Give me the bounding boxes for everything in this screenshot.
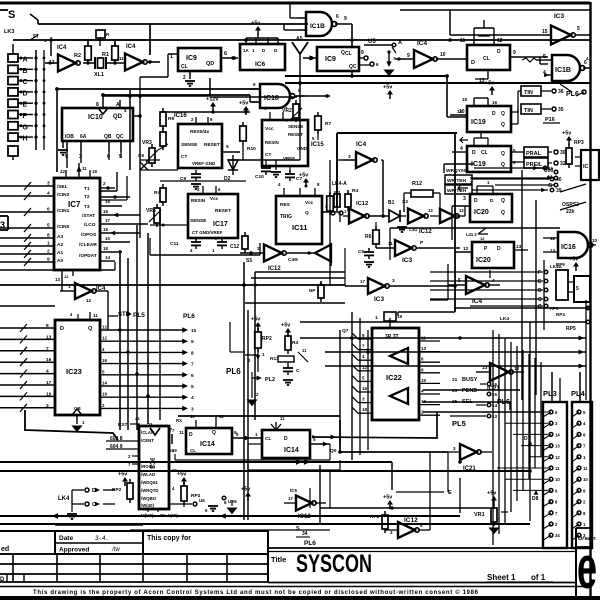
svg-text:A: A (23, 57, 28, 64)
wire IC10 right out (133, 114, 142, 118)
svg-text:IC7: IC7 (68, 200, 81, 209)
inverter IC21 lower (448, 444, 492, 472)
wire bus right y338 (300, 335, 586, 340)
wires bottom right loops (310, 452, 448, 530)
svg-text:IC4: IC4 (126, 44, 136, 50)
wire IC23 pin to IC8 curve (25, 410, 118, 440)
svg-text:4: 4 (47, 191, 50, 197)
svg-text:12: 12 (102, 325, 108, 330)
resistor R9 (160, 108, 174, 130)
IC23 top pin (70, 312, 98, 320)
svg-text:TIN: TIN (524, 90, 533, 96)
wire loop under IC20 (430, 264, 490, 300)
svg-text:S: S (8, 9, 15, 21)
svg-text:/WQBO: /WQBO (141, 496, 157, 501)
svg-text:R12: R12 (412, 181, 422, 187)
IC6 second flip-flop (460, 38, 510, 70)
svg-text:Rn: Rn (154, 190, 160, 196)
svg-text:6: 6 (47, 207, 50, 213)
IC8 tall box (139, 426, 169, 509)
svg-text:RP2: RP2 (262, 336, 272, 342)
wire vertical x455 long (398, 133, 455, 316)
svg-text:12: 12 (102, 336, 108, 341)
svg-text:S3: S3 (402, 199, 408, 205)
svg-text:15: 15 (542, 29, 548, 35)
svg-text:R9: R9 (168, 116, 174, 122)
svg-text:GND: GND (297, 146, 308, 151)
svg-text:IC23: IC23 (66, 367, 82, 376)
svg-text:IC12: IC12 (356, 201, 368, 207)
svg-text:CT: CT (265, 152, 271, 158)
drawn box (576, 528, 596, 596)
svg-text:16: 16 (102, 358, 108, 363)
IC20 first left wire (452, 206, 470, 240)
label IC16 (174, 113, 187, 119)
label Title (271, 555, 286, 564)
svg-text:/WDQ04: /WDQ04 (141, 480, 158, 485)
svg-text:XL1: XL1 (94, 72, 104, 78)
resistor Rh (158, 128, 168, 150)
pump symbol A5 (292, 36, 308, 62)
wire cluster rail (230, 322, 245, 352)
svg-text:21: 21 (452, 377, 458, 383)
svg-text:LK4-A: LK4-A (332, 181, 347, 187)
svg-text:10: 10 (583, 477, 588, 482)
svg-text:D: D (284, 436, 288, 442)
NAND IC16 right (543, 232, 598, 258)
svg-text:A5: A5 (296, 36, 303, 42)
svg-text:+5v: +5v (487, 491, 497, 497)
wire bus risers bottom (352, 312, 530, 521)
svg-text:22k: 22k (566, 209, 575, 215)
border right (589, 2, 591, 596)
svg-text:C: C (538, 304, 542, 310)
svg-text:R6: R6 (365, 234, 372, 240)
svg-text:RESET: RESET (204, 142, 220, 148)
svg-text:5: 5 (191, 384, 194, 390)
inverter IC12 midleft (240, 245, 286, 273)
svg-text:RP9: RP9 (556, 262, 565, 267)
svg-text:CL: CL (345, 51, 352, 57)
title block left cut box (0, 546, 55, 554)
svg-text:C5: C5 (358, 249, 364, 255)
connector LK3 header label (4, 29, 53, 43)
inverter IC21 right (476, 363, 524, 392)
svg-text:Q: Q (501, 111, 505, 117)
IC7 top pins (60, 163, 98, 178)
svg-text:PL4: PL4 (571, 389, 586, 398)
svg-text:Q: Q (501, 122, 505, 128)
svg-text:IC5: IC5 (290, 488, 298, 493)
IC15 box right edge (575, 150, 599, 180)
svg-text:Q: Q (501, 162, 505, 168)
svg-text:C: C (23, 79, 28, 86)
svg-text:19: 19 (397, 314, 403, 319)
svg-text:C6: C6 (138, 153, 144, 159)
svg-text:E: E (23, 102, 28, 109)
svg-text:IC4: IC4 (57, 45, 67, 51)
wire bus y40 long (13, 38, 590, 42)
wire osc top rail (51, 40, 146, 56)
IC19 second top pins (460, 132, 488, 146)
svg-text:RES: RES (280, 202, 291, 208)
inverter IC3 lower (345, 278, 455, 303)
svg-text:4: 4 (460, 146, 463, 152)
svg-text:R2: R2 (74, 53, 81, 59)
varistor VR4 (146, 204, 161, 227)
svg-text:A2: A2 (57, 242, 63, 248)
svg-text:VREF GND: VREF GND (192, 161, 216, 166)
svg-text:RESET: RESET (288, 132, 303, 137)
PL3 connector body (543, 402, 567, 548)
wire bus right y352 (325, 349, 586, 354)
svg-text:IC20: IC20 (476, 257, 491, 264)
svg-text:15: 15 (421, 378, 427, 383)
boxed labels WRPROT (444, 164, 474, 194)
junction dots buses (55, 74, 532, 473)
IC22 right wires (419, 336, 440, 416)
svg-text:F: F (538, 270, 541, 276)
IC23 right wires to PL6 arrows (100, 325, 197, 413)
cap C10 (255, 160, 271, 180)
svg-text:12: 12 (64, 274, 69, 279)
svg-text:30: 30 (560, 150, 566, 156)
svg-text:QC: QC (116, 134, 124, 140)
svg-text:17: 17 (105, 218, 111, 223)
label RX7 (118, 416, 140, 428)
svg-text:39: 39 (556, 188, 562, 194)
svg-text:IC4: IC4 (356, 141, 367, 148)
svg-text:Date: Date (59, 535, 73, 542)
svg-text:/WLAD: /WLAD (141, 472, 155, 477)
svg-text:PL3: PL3 (543, 389, 557, 398)
IC22 buffer block (372, 328, 419, 420)
econet e logo (577, 535, 597, 600)
IC7 bottom pin (55, 270, 73, 291)
PL3 pin labels (555, 410, 560, 538)
diode D2 (224, 155, 238, 182)
svg-text:23: 23 (452, 388, 458, 394)
title block outer top line (0, 525, 268, 531)
svg-text:3-.4..: 3-.4.. (95, 536, 109, 542)
svg-text:/WRQTD: /WRQTD (141, 488, 158, 493)
wire verticals center (300, 62, 345, 286)
svg-text:RES5/4x: RES5/4x (190, 129, 210, 135)
svg-text:2: 2 (257, 246, 260, 252)
resistor R12 feedback (404, 181, 440, 216)
wires bending into PL3 (497, 412, 548, 490)
svg-text:14: 14 (102, 381, 108, 386)
svg-text:1A: 1A (243, 48, 250, 53)
label E bottom (396, 490, 452, 496)
wire IC18 inputs (57, 89, 260, 172)
svg-text:11: 11 (82, 166, 87, 171)
wire horizontal y295 left (0, 262, 345, 330)
svg-text:10: 10 (46, 391, 52, 397)
svg-text:6: 6 (336, 14, 339, 20)
cluster ground (248, 380, 294, 406)
svg-text:11: 11 (460, 38, 466, 44)
labels BUSY PEND SEL (450, 377, 498, 419)
wire vertical x447 to IC19 (447, 76, 467, 117)
svg-text:3: 3 (325, 204, 328, 210)
svg-text:+5v: +5v (562, 131, 572, 137)
svg-text:CL: CL (483, 56, 490, 62)
svg-text:19: 19 (102, 392, 108, 397)
varistor VR1 bottom (474, 491, 508, 534)
wire nested loops right of IC14 (312, 390, 540, 452)
svg-text:Q7: Q7 (342, 328, 349, 334)
IC14b flip-flop (255, 430, 315, 458)
svg-text:34: 34 (555, 533, 560, 538)
connector LK4 bottom left (58, 488, 115, 519)
svg-text:17: 17 (288, 496, 294, 501)
inverter IC4 top middle (395, 40, 437, 68)
svg-text:R10: R10 (247, 146, 256, 152)
IC20 second (455, 242, 528, 268)
svg-text:13: 13 (428, 208, 433, 213)
svg-text:17: 17 (360, 279, 366, 284)
crystal XL1 (83, 57, 124, 78)
wire IC10 top net (103, 78, 210, 96)
svg-text:12: 12 (497, 38, 503, 44)
svg-text:36: 36 (558, 89, 564, 95)
svg-text:/OPDAT: /OPDAT (79, 253, 97, 259)
svg-text:PL6: PL6 (183, 313, 195, 320)
wire IC17 bottom rail (150, 238, 260, 255)
svg-text:+5v: +5v (177, 472, 187, 478)
IC8 bottom labels (140, 509, 178, 518)
ground under left column (58, 140, 68, 155)
svg-text:3: 3 (348, 154, 351, 160)
svg-text:10: 10 (555, 477, 560, 482)
cap C6 (138, 153, 148, 170)
IC23 buffer (55, 320, 100, 415)
wire IC3 out to border (575, 26, 590, 35)
svg-text:T3: T3 (84, 204, 90, 210)
svg-text:CT: CT (181, 154, 187, 160)
IC15 top pins (264, 106, 288, 120)
cap cluster C (283, 362, 300, 375)
svg-text:13: 13 (46, 334, 52, 340)
svg-text:BUSY: BUSY (462, 377, 478, 383)
svg-text:ed: ed (1, 546, 9, 553)
svg-text:13: 13 (516, 244, 522, 250)
svg-text:34: 34 (302, 531, 308, 537)
svg-text:UX6: UX6 (228, 499, 237, 504)
IC6 second bottom pin 13 (475, 70, 488, 84)
svg-text:RP5: RP5 (566, 326, 576, 332)
inverter IC4 right low (448, 276, 500, 305)
svg-text:IC3: IC3 (554, 13, 565, 20)
IC17 top pins (160, 181, 246, 194)
svg-text:+5v: +5v (569, 257, 579, 263)
svg-text:3: 3 (392, 278, 395, 284)
supply +5v label mid2 (299, 173, 309, 188)
svg-text:32: 32 (560, 161, 566, 167)
IC15 label (311, 142, 324, 148)
bottom bar (0, 596, 600, 600)
NAND IC18 (250, 82, 305, 108)
svg-text:23: 23 (135, 416, 140, 421)
svg-text:5: 5 (543, 54, 546, 60)
svg-text:CL: CL (181, 64, 188, 70)
svg-text:A3: A3 (57, 234, 63, 240)
label PL6 right top (556, 80, 586, 98)
svg-text:B: B (23, 68, 28, 75)
title block this-copy box (143, 531, 268, 554)
svg-text:S: S (296, 526, 300, 532)
svg-text:L41 2: L41 2 (466, 232, 477, 237)
svg-text:10: 10 (455, 214, 461, 220)
inverter IC4 (osc left) (45, 45, 80, 72)
svg-text:11: 11 (280, 416, 285, 421)
svg-text:8: 8 (191, 350, 194, 356)
svg-text:IC6: IC6 (255, 61, 266, 68)
svg-text:IC1B: IC1B (555, 67, 571, 74)
IC7 right pin numbers (103, 181, 118, 260)
svg-text:5: 5 (47, 223, 50, 229)
svg-text:10: 10 (190, 414, 195, 419)
svg-text:11: 11 (555, 466, 560, 471)
svg-text:TIN: TIN (524, 108, 533, 114)
svg-text:12: 12 (86, 298, 92, 303)
labels PL3 PL4 (543, 389, 586, 398)
NAND IC1B right (522, 54, 585, 81)
label D8 D7 (524, 436, 539, 502)
svg-text:/CENT: /CENT (141, 438, 154, 443)
svg-text:11: 11 (148, 422, 153, 427)
link LK6 ground (169, 498, 218, 513)
svg-text:12: 12 (459, 208, 464, 213)
wire long bus y516 y524 (0, 513, 530, 524)
test point T1 (96, 30, 110, 46)
svg-text:IC12: IC12 (419, 229, 432, 235)
wire IC1B out (335, 16, 352, 47)
wire y495 bottom (130, 529, 330, 531)
svg-text:Vcc: Vcc (305, 200, 314, 205)
cap C12 (212, 238, 239, 253)
svg-text:11: 11 (179, 430, 184, 435)
svg-text:10: 10 (592, 238, 598, 243)
label Sheet 1 of 1 (487, 573, 553, 582)
svg-text:3: 3 (463, 196, 466, 202)
cap C11 (170, 238, 201, 253)
wires WR to pins (472, 166, 562, 194)
wire top-left riser (0, 9, 38, 24)
svg-text:/CIN0: /CIN0 (57, 224, 70, 230)
svg-text:3: 3 (233, 56, 236, 62)
boxed label PREIL (511, 158, 566, 168)
wire bus y77 (140, 54, 168, 96)
svg-text:S5: S5 (246, 258, 252, 264)
svg-text:IC14: IC14 (200, 441, 215, 448)
svg-text:This drawing is the property o: This drawing is the property of Acorn Co… (33, 589, 479, 596)
svg-text:VREF: VREF (283, 156, 295, 161)
svg-text:/CIN2: /CIN2 (57, 192, 70, 198)
PL4 pin labels (583, 410, 588, 538)
svg-text:IC14: IC14 (284, 447, 299, 454)
svg-text:QC: QC (349, 64, 357, 70)
svg-text:1: 1 (47, 241, 50, 247)
svg-text:SENSE: SENSE (190, 218, 207, 224)
inverter IC12 bottom a (284, 488, 326, 520)
svg-text:QD: QD (113, 114, 123, 120)
svg-text:10: 10 (191, 328, 197, 334)
varistor VR3 (142, 140, 158, 167)
IC13 wedge and pin7 (148, 422, 175, 453)
circles col right low (470, 304, 559, 311)
resistor R5 mid (242, 232, 252, 264)
IC14b top pin (271, 416, 285, 430)
svg-text:/W(40): /W(40) (141, 503, 154, 508)
svg-text:D: D (60, 326, 64, 332)
svg-text:LK4: LK4 (500, 316, 509, 322)
svg-text:40: 40 (556, 177, 562, 183)
resistor pack RP9 right (556, 257, 579, 301)
svg-text:6: 6 (224, 51, 227, 57)
svg-text:IC1B: IC1B (310, 23, 325, 30)
svg-text:C11: C11 (170, 241, 179, 247)
svg-text:IC16: IC16 (174, 113, 187, 119)
svg-text:LK4: LK4 (58, 496, 70, 502)
wire LK3 columns (13, 44, 44, 150)
svg-text:+5v: +5v (383, 495, 393, 501)
svg-text:C7: C7 (296, 176, 302, 182)
svg-text:F: F (23, 113, 28, 120)
svg-text:2: 2 (47, 249, 50, 255)
svg-text:VR3: VR3 (142, 140, 152, 146)
svg-text:1b: 1b (548, 166, 554, 171)
svg-text:/CLEAR: /CLEAR (79, 242, 97, 248)
svg-text:22: 22 (60, 169, 66, 174)
svg-text:IC18: IC18 (264, 95, 279, 102)
svg-text:A0: A0 (57, 258, 63, 264)
svg-text:4: 4 (191, 395, 194, 401)
svg-text:IC: IC (583, 164, 589, 170)
svg-text:WRITEH: WRITEH (447, 178, 466, 184)
svg-text:RP3: RP3 (556, 312, 565, 317)
label P16 (543, 117, 560, 123)
label PL5 bold (452, 419, 466, 428)
IC11 timer box (276, 196, 322, 244)
inverter IC3 chain c (428, 206, 465, 223)
svg-text:18: 18 (462, 97, 468, 102)
svg-text:C: C (538, 297, 542, 303)
labels U06 H G with pins (470, 168, 558, 189)
svg-text:18: 18 (103, 246, 109, 251)
svg-text:14: 14 (105, 255, 111, 260)
svg-text:IC9: IC9 (325, 56, 336, 63)
svg-text:RP2: RP2 (370, 514, 380, 520)
svg-text:7: 7 (169, 428, 172, 434)
connector LK4-A column right (430, 264, 563, 303)
resistor R7 right (312, 112, 331, 141)
svg-text:PL5: PL5 (133, 312, 145, 319)
wire bus y471 (0, 470, 530, 472)
svg-text:6: 6 (191, 373, 194, 379)
svg-text:IC11: IC11 (292, 223, 307, 232)
IC7 system controller (54, 178, 100, 270)
net label U5 (364, 39, 402, 53)
varistor VR2 (282, 100, 302, 123)
IC22 top pin (375, 312, 403, 328)
svg-text:SENSE: SENSE (181, 142, 198, 148)
svg-text:Q: Q (88, 326, 93, 332)
svg-text:3: 3 (46, 403, 49, 409)
svg-text:IC3: IC3 (374, 296, 385, 303)
svg-text:IC15: IC15 (311, 142, 324, 148)
